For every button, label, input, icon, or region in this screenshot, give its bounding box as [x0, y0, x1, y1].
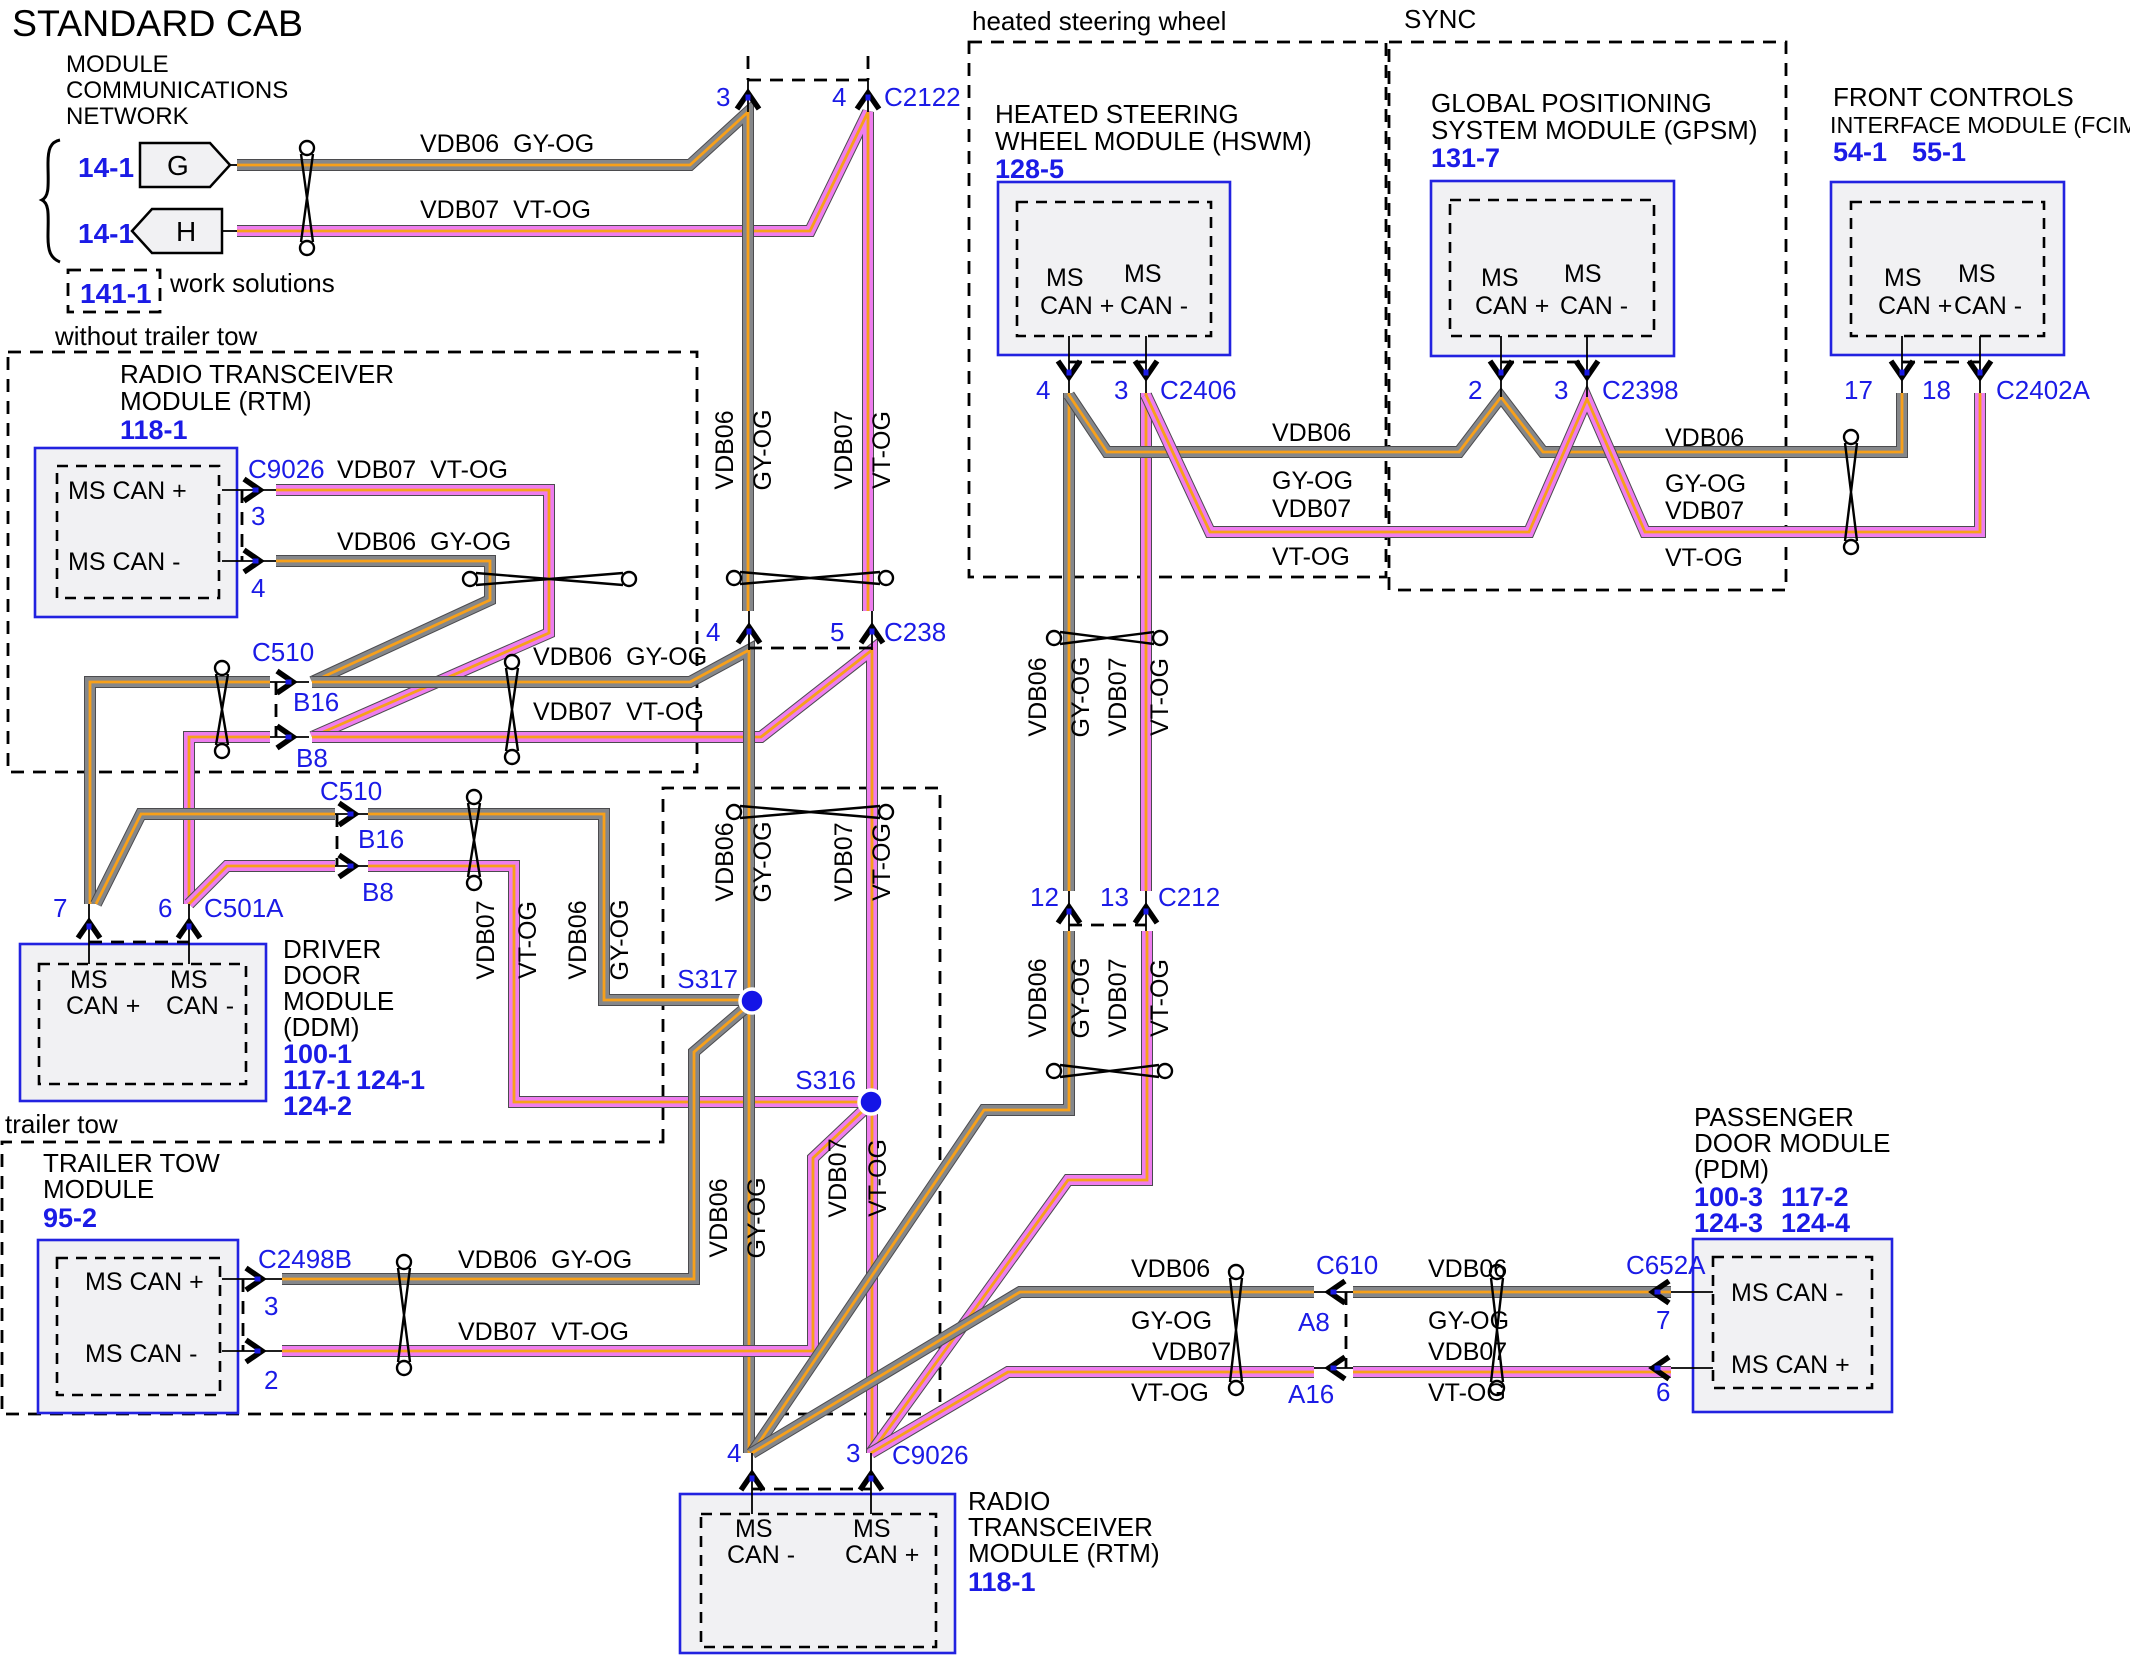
- svg-text:VDB07: VDB07: [1152, 1338, 1231, 1366]
- connector C238 pins 4 and 5: [749, 647, 872, 650]
- svg-text:3: 3: [251, 501, 265, 531]
- connector C212 pins 12 and 13: [1069, 924, 1146, 927]
- svg-text:C501A: C501A: [204, 893, 284, 923]
- module FCIM box: [1831, 182, 2064, 355]
- wire VDB07 C9026 pin3 to C610 A16: [871, 1372, 1314, 1453]
- svg-text:VDB07: VDB07: [1104, 657, 1132, 736]
- svg-text:B8: B8: [362, 877, 394, 907]
- svg-text:FRONT CONTROLS: FRONT CONTROLS: [1833, 82, 2074, 112]
- svg-text:VDB07: VDB07: [830, 822, 858, 901]
- svg-text:MS CAN -: MS CAN -: [68, 548, 181, 576]
- svg-text:VDB07: VDB07: [830, 410, 858, 489]
- svg-text:128-5: 128-5: [995, 154, 1064, 184]
- svg-text:18: 18: [1922, 375, 1951, 405]
- svg-text:work solutions: work solutions: [169, 268, 335, 298]
- svg-text:HEATED STEERING: HEATED STEERING: [995, 99, 1239, 129]
- svg-text:131-7: 131-7: [1431, 143, 1500, 173]
- svg-text:trailer tow: trailer tow: [5, 1109, 118, 1139]
- svg-text:MS CAN +: MS CAN +: [68, 477, 187, 505]
- wire VDB07 HSWM pin3 to C212 pin13: [1145, 393, 1147, 891]
- svg-text:C2398: C2398: [1602, 375, 1679, 405]
- svg-text:MS: MS: [1124, 260, 1162, 288]
- svg-text:SYNC: SYNC: [1404, 4, 1476, 34]
- svg-text:VDB07: VDB07: [1665, 497, 1744, 525]
- svg-text:MS: MS: [70, 966, 108, 994]
- svg-text:heated steering wheel: heated steering wheel: [972, 6, 1226, 36]
- connector C510 B16 and B8 lower: [336, 814, 339, 866]
- wire VDB06 C9026 pin4 to C610 A8: [752, 1292, 1314, 1453]
- svg-text:CAN +: CAN +: [66, 992, 140, 1020]
- svg-text:55-1: 55-1: [1912, 137, 1966, 167]
- wire VDB07 C510-B8 left to DDM pin6: [189, 737, 270, 904]
- svg-text:4: 4: [251, 573, 265, 603]
- connector C9026 bottom pins 4 and 3: [752, 1488, 871, 1491]
- svg-text:VDB07: VDB07: [824, 1138, 852, 1217]
- module RTM bottom box: [680, 1494, 955, 1653]
- svg-text:VDB06: VDB06: [1428, 1255, 1507, 1283]
- svg-text:S317: S317: [677, 964, 738, 994]
- twisted pair symbol below C238: [727, 805, 741, 819]
- svg-text:VT-OG: VT-OG: [1131, 1379, 1209, 1407]
- twisted pair symbol on G/H wires: [300, 141, 314, 155]
- svg-text:CAN +: CAN +: [1040, 292, 1114, 320]
- svg-text:GY-OG: GY-OG: [749, 821, 777, 902]
- wire VDB06 C510-B16 left to DDM pin7: [90, 682, 270, 904]
- svg-text:GLOBAL POSITIONING: GLOBAL POSITIONING: [1431, 88, 1712, 118]
- wire VDB06 splice S317 to trailer tow module pin3: [282, 1004, 750, 1279]
- svg-text:VDB07 VT-OG: VDB07 VT-OG: [420, 196, 591, 224]
- svg-text:3: 3: [264, 1291, 278, 1321]
- svg-text:MS: MS: [1481, 264, 1519, 292]
- connector C2402A pins 17 and 18: [1902, 361, 1980, 364]
- module DDM box: [20, 944, 266, 1101]
- svg-text:C2122: C2122: [884, 82, 961, 112]
- wire VDB07 lower C510 B8 to splice S316: [368, 866, 868, 1102]
- svg-text:MS: MS: [1958, 260, 1996, 288]
- svg-text:6: 6: [1656, 1377, 1670, 1407]
- svg-text:INTERFACE MODULE (FCIM): INTERFACE MODULE (FCIM): [1830, 112, 2130, 138]
- svg-text:MODULE: MODULE: [43, 1174, 154, 1204]
- svg-text:G: G: [167, 150, 189, 181]
- svg-text:MODULE (RTM): MODULE (RTM): [968, 1538, 1160, 1568]
- svg-text:S316: S316: [795, 1065, 856, 1095]
- svg-text:CAN +: CAN +: [845, 1541, 919, 1569]
- twisted pair symbol left of C510: [215, 661, 229, 675]
- svg-text:CAN -: CAN -: [1954, 292, 2022, 320]
- svg-text:COMMUNICATIONS: COMMUNICATIONS: [66, 77, 288, 104]
- wire VDB06 bus C510-B16 to C238 pin4 and down to C9026 pin4: [312, 650, 749, 1453]
- wire VDB06 GY-OG from G connector to C2122 pin3 / trunk: [237, 112, 748, 611]
- svg-text:CAN +: CAN +: [1878, 292, 1952, 320]
- svg-text:MS: MS: [1564, 260, 1602, 288]
- svg-text:VT-OG: VT-OG: [868, 411, 896, 489]
- wire VDB06 C212 pin12 to C9026 pin4: [752, 931, 1069, 1453]
- svg-text:124-3: 124-3: [1694, 1208, 1763, 1238]
- svg-text:14-1: 14-1: [78, 218, 134, 249]
- svg-text:B16: B16: [358, 824, 404, 854]
- module RTM top box: [35, 448, 237, 617]
- svg-text:C212: C212: [1158, 882, 1220, 912]
- svg-text:A16: A16: [1288, 1379, 1334, 1409]
- twisted pair symbol on RTM loop drops: [463, 572, 477, 586]
- svg-text:3: 3: [1554, 375, 1568, 405]
- svg-text:VDB06: VDB06: [564, 900, 592, 979]
- svg-text:without trailer tow: without trailer tow: [54, 321, 258, 351]
- svg-text:VDB07 VT-OG: VDB07 VT-OG: [533, 698, 704, 726]
- svg-text:VT-OG: VT-OG: [1146, 959, 1174, 1037]
- svg-text:GY-OG: GY-OG: [743, 1177, 771, 1258]
- wire VDB07 HSWM to GPSM pin3 to FCIM pin18: [1146, 393, 1980, 532]
- svg-text:3: 3: [1114, 375, 1128, 405]
- wire VDB07 bus C510-B8 to C238 pin5 and down to C9026 pin3: [312, 650, 872, 1453]
- svg-text:VT-OG: VT-OG: [1665, 544, 1743, 572]
- svg-text:C510: C510: [252, 637, 314, 667]
- svg-text:C2402A: C2402A: [1996, 375, 2091, 405]
- svg-text:MS CAN -: MS CAN -: [85, 1340, 198, 1368]
- svg-text:VDB06: VDB06: [1665, 424, 1744, 452]
- svg-text:C2498B: C2498B: [258, 1244, 352, 1274]
- svg-text:C238: C238: [884, 617, 946, 647]
- svg-text:124-2: 124-2: [283, 1091, 352, 1121]
- svg-text:C610: C610: [1316, 1250, 1378, 1280]
- wire VDB06 lower C510 B16 to splice S317: [368, 814, 744, 1000]
- svg-text:GY-OG: GY-OG: [1067, 656, 1095, 737]
- svg-text:B16: B16: [293, 687, 339, 717]
- wire VDB06 DDM pin7 to lower C510 B16: [96, 814, 335, 904]
- svg-text:4: 4: [1036, 375, 1050, 405]
- svg-text:54-1: 54-1: [1833, 137, 1887, 167]
- wire VDB07 C212 pin13 to C9026 pin3: [871, 931, 1147, 1453]
- svg-text:12: 12: [1030, 882, 1059, 912]
- wire VDB07 splice S316 to trailer tow module pin2: [282, 1106, 868, 1351]
- svg-text:C2406: C2406: [1160, 375, 1237, 405]
- svg-text:VT-OG: VT-OG: [1146, 658, 1174, 736]
- twisted pair symbol right of C610: [1490, 1265, 1504, 1279]
- svg-text:VT-OG: VT-OG: [514, 901, 542, 979]
- wire VDB06 HSWM pin4 to C212 pin12: [1068, 393, 1070, 891]
- twisted pair symbol on trailer tow pair: [397, 1255, 411, 1269]
- svg-text:95-2: 95-2: [43, 1203, 97, 1233]
- svg-text:CAN -: CAN -: [1120, 292, 1188, 320]
- svg-text:4: 4: [727, 1438, 741, 1468]
- module PDM box: [1693, 1239, 1892, 1412]
- module Trailer Tow box: [38, 1240, 238, 1413]
- splice S316: [859, 1090, 883, 1114]
- svg-text:VDB06 GY-OG: VDB06 GY-OG: [420, 130, 594, 158]
- svg-text:MS CAN +: MS CAN +: [85, 1268, 204, 1296]
- wire VDB07 C610 A16 to PDM C652A pin6: [1353, 1371, 1671, 1373]
- svg-text:124-4: 124-4: [1781, 1208, 1850, 1238]
- svg-text:VDB07: VDB07: [1104, 958, 1132, 1037]
- twisted pair symbol above C238: [727, 571, 741, 585]
- svg-text:6: 6: [158, 893, 172, 923]
- svg-text:GY-OG: GY-OG: [1272, 467, 1353, 495]
- connector C510 B16 and B8 upper: [275, 682, 278, 737]
- svg-text:C510: C510: [320, 776, 382, 806]
- svg-text:VDB07 VT-OG: VDB07 VT-OG: [458, 1318, 629, 1346]
- wire VDB06 HSWM to GPSM pin2 to FCIM pin17: [1069, 393, 1902, 452]
- svg-text:118-1: 118-1: [968, 1567, 1036, 1597]
- svg-text:VT-OG: VT-OG: [1428, 1379, 1506, 1407]
- svg-text:4: 4: [706, 617, 720, 647]
- svg-text:VDB07: VDB07: [1428, 1338, 1507, 1366]
- svg-text:SYSTEM MODULE (GPSM): SYSTEM MODULE (GPSM): [1431, 115, 1757, 145]
- svg-text:2: 2: [264, 1365, 278, 1395]
- svg-text:MS CAN -: MS CAN -: [1731, 1279, 1844, 1307]
- svg-text:VDB06: VDB06: [1024, 958, 1052, 1037]
- svg-text:GY-OG: GY-OG: [1665, 470, 1746, 498]
- svg-text:VT-OG: VT-OG: [1272, 543, 1350, 571]
- svg-text:MODULE (RTM): MODULE (RTM): [120, 386, 312, 416]
- svg-text:MS: MS: [735, 1515, 773, 1543]
- svg-text:VDB06: VDB06: [705, 1178, 733, 1257]
- svg-text:3: 3: [716, 82, 730, 112]
- twisted pair symbol GPSM to FCIM pair: [1844, 430, 1858, 444]
- svg-text:7: 7: [1656, 1305, 1670, 1335]
- svg-text:14-1: 14-1: [78, 152, 134, 183]
- svg-text:C652A: C652A: [1626, 1250, 1706, 1280]
- svg-text:A8: A8: [1298, 1307, 1330, 1337]
- wire VDB07 DDM pin6 to lower C510 B8: [189, 866, 335, 904]
- svg-text:H: H: [176, 216, 196, 247]
- svg-text:7: 7: [53, 893, 67, 923]
- wire VDB06 RTM MS CAN- loop to C510 B16: [276, 561, 490, 682]
- splice S317: [740, 989, 764, 1013]
- svg-text:VDB06: VDB06: [711, 822, 739, 901]
- svg-text:VDB06 GY-OG: VDB06 GY-OG: [458, 1246, 632, 1274]
- brace for network connectors: [42, 140, 60, 262]
- svg-text:(PDM): (PDM): [1694, 1154, 1769, 1184]
- svg-text:3: 3: [846, 1438, 860, 1468]
- svg-text:118-1: 118-1: [120, 415, 188, 445]
- svg-text:MS CAN +: MS CAN +: [1731, 1351, 1850, 1379]
- svg-text:B8: B8: [296, 743, 328, 773]
- connector C2122 pins 3 and 4: [748, 56, 868, 80]
- svg-text:GY-OG: GY-OG: [1131, 1307, 1212, 1335]
- svg-text:MS: MS: [1046, 264, 1084, 292]
- svg-text:CAN -: CAN -: [1560, 292, 1628, 320]
- svg-text:MS: MS: [170, 966, 208, 994]
- svg-text:VDB07 VT-OG: VDB07 VT-OG: [337, 456, 508, 484]
- dashed box: heated steering wheel group: [969, 42, 1386, 577]
- svg-text:C9026: C9026: [248, 454, 325, 484]
- svg-text:NETWORK: NETWORK: [66, 103, 189, 130]
- svg-text:CAN -: CAN -: [166, 992, 234, 1020]
- svg-text:VDB06: VDB06: [1272, 419, 1351, 447]
- svg-text:VDB07: VDB07: [1272, 495, 1351, 523]
- wire VDB06 C610 A8 to PDM C652A pin7: [1353, 1291, 1671, 1293]
- svg-text:CAN -: CAN -: [727, 1541, 795, 1569]
- svg-text:VDB06 GY-OG: VDB06 GY-OG: [337, 528, 511, 556]
- svg-text:MS: MS: [853, 1515, 891, 1543]
- svg-text:GY-OG: GY-OG: [1067, 957, 1095, 1038]
- svg-text:STANDARD CAB: STANDARD CAB: [12, 2, 303, 44]
- svg-text:GY-OG: GY-OG: [606, 899, 634, 980]
- connector C2406 pins 4 and 3: [1069, 361, 1146, 364]
- connector C501A pins 7 and 6: [89, 941, 189, 944]
- svg-text:2: 2: [1468, 375, 1482, 405]
- dashed box: without trailer tow group: [8, 352, 697, 772]
- dashed box: SYNC group: [1389, 42, 1786, 590]
- svg-text:GY-OG: GY-OG: [1428, 1307, 1509, 1335]
- wire VDB07 VT-OG from H connector to C2122 pin4 / trunk: [237, 112, 868, 611]
- twisted pair symbol left of C610: [1229, 1265, 1243, 1279]
- connector C2498B pins 3 and 2: [242, 1279, 245, 1351]
- twisted pair symbol lower C510 pair: [467, 790, 481, 804]
- svg-text:VDB06 GY-OG: VDB06 GY-OG: [533, 643, 707, 671]
- svg-text:MS: MS: [1884, 264, 1922, 292]
- svg-text:VDB06: VDB06: [711, 410, 739, 489]
- svg-text:VDB06: VDB06: [1131, 1255, 1210, 1283]
- svg-text:124-1: 124-1: [356, 1065, 425, 1095]
- svg-text:MODULE: MODULE: [66, 51, 169, 78]
- svg-text:(DDM): (DDM): [283, 1012, 360, 1042]
- svg-text:VT-OG: VT-OG: [864, 1139, 892, 1217]
- svg-text:C9026: C9026: [892, 1440, 969, 1470]
- connector C610 pins A8 and A16: [1345, 1292, 1348, 1368]
- connector C652A pins 7 and 6: [1671, 1292, 1713, 1368]
- svg-text:5: 5: [830, 617, 844, 647]
- svg-text:WHEEL MODULE (HSWM): WHEEL MODULE (HSWM): [995, 126, 1312, 156]
- twisted pair symbol below HSWM C2406: [1047, 631, 1061, 645]
- twisted pair symbol right of C510: [505, 655, 519, 669]
- svg-text:4: 4: [832, 82, 846, 112]
- connector C2398 pins 2 and 3: [1501, 361, 1587, 364]
- svg-text:13: 13: [1100, 882, 1129, 912]
- twisted pair symbol below C212: [1047, 1064, 1061, 1078]
- dashed box: trailer tow group (L-shaped): [2, 788, 940, 1414]
- module GPSM box: [1431, 181, 1674, 356]
- svg-text:CAN +: CAN +: [1475, 292, 1549, 320]
- svg-text:VDB07: VDB07: [472, 900, 500, 979]
- dashed box: work solutions 141-1: [68, 270, 160, 312]
- svg-text:VDB06: VDB06: [1024, 657, 1052, 736]
- module HSWM box: [998, 182, 1230, 355]
- connector C9026 at RTM top pins 3 and 4: [241, 490, 244, 561]
- svg-text:17: 17: [1844, 375, 1873, 405]
- svg-text:GY-OG: GY-OG: [749, 409, 777, 490]
- svg-text:141-1: 141-1: [80, 278, 152, 309]
- svg-text:RADIO TRANSCEIVER: RADIO TRANSCEIVER: [120, 359, 394, 389]
- svg-text:VT-OG: VT-OG: [868, 823, 896, 901]
- wire VDB07 RTM MS CAN+ loop to C510 B8: [276, 490, 549, 737]
